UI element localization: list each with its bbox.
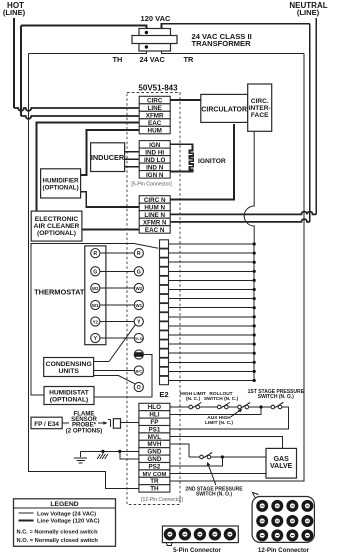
svg-text:CIRC N: CIRC N — [144, 197, 166, 204]
svg-text:IGN: IGN — [149, 142, 161, 149]
svg-text:5-Pin Connector: 5-Pin Connector — [173, 547, 221, 554]
svg-text:HUMIDIFIER: HUMIDIFIER — [43, 177, 80, 184]
svg-text:HUM N: HUM N — [144, 205, 165, 212]
svg-text:PS1: PS1 — [148, 426, 160, 433]
svg-text:XFMR N: XFMR N — [143, 220, 166, 227]
svg-text:N.C. = Normally closed switch: N.C. = Normally closed switch — [17, 530, 99, 536]
svg-text:MV COM: MV COM — [142, 472, 166, 478]
svg-text:[12-Pin Connector]: [12-Pin Connector] — [141, 497, 183, 503]
svg-text:24 VAC: 24 VAC — [140, 55, 166, 64]
svg-text:FP / E34: FP / E34 — [34, 421, 59, 428]
svg-text:YLO: YLO — [135, 337, 143, 341]
svg-text:GND: GND — [147, 456, 161, 463]
svg-text:Low Voltage (24 VAC): Low Voltage (24 VAC) — [37, 511, 96, 517]
svg-text:EAC: EAC — [148, 120, 162, 127]
svg-text:(LINE): (LINE) — [297, 8, 320, 17]
svg-text:120 VAC: 120 VAC — [141, 14, 171, 23]
svg-text:(2 OPTIONS): (2 OPTIONS) — [66, 428, 103, 435]
svg-text:50V51-843: 50V51-843 — [138, 84, 178, 93]
svg-text:O: O — [137, 385, 141, 391]
svg-text:TH: TH — [150, 486, 159, 493]
svg-text:(OPTIONAL): (OPTIONAL) — [43, 184, 79, 191]
svg-text:G: G — [93, 269, 97, 275]
svg-text:TR: TR — [150, 478, 159, 485]
svg-text:E2: E2 — [159, 390, 168, 399]
svg-text:W2: W2 — [136, 286, 143, 291]
svg-text:HLI: HLI — [149, 412, 159, 419]
svg-text:Y2: Y2 — [93, 320, 99, 325]
svg-text:LIMIT (N. C.): LIMIT (N. C.) — [205, 420, 233, 426]
svg-text:W1: W1 — [92, 303, 99, 308]
svg-text:INTER-: INTER- — [249, 105, 271, 112]
svg-text:LEGEND: LEGEND — [50, 501, 78, 508]
svg-text:FP: FP — [150, 419, 158, 426]
svg-text:W1: W1 — [136, 303, 143, 308]
svg-text:HLO: HLO — [148, 404, 161, 411]
svg-text:G: G — [137, 269, 141, 275]
svg-text:[5-Pin Connector]: [5-Pin Connector] — [131, 182, 172, 188]
svg-text:(LINE): (LINE) — [3, 8, 26, 17]
svg-text:R: R — [93, 251, 97, 257]
svg-text:CIRCULATOR: CIRCULATOR — [201, 107, 247, 114]
svg-text:IND N: IND N — [146, 164, 164, 171]
svg-text:UNITS: UNITS — [58, 368, 79, 375]
svg-text:Line Voltage (120 VAC): Line Voltage (120 VAC) — [37, 519, 100, 525]
svg-text:TH: TH — [113, 55, 123, 64]
svg-text:AIR CLEANER: AIR CLEANER — [34, 223, 80, 230]
svg-text:GND: GND — [147, 449, 161, 456]
svg-text:CONDENSING: CONDENSING — [46, 361, 92, 368]
svg-text:GAS: GAS — [274, 456, 290, 463]
svg-text:TR: TR — [184, 55, 195, 64]
svg-text:B/C: B/C — [136, 370, 143, 374]
svg-text:THERMOSTAT: THERMOSTAT — [34, 287, 85, 296]
svg-text:EAC N: EAC N — [145, 227, 165, 234]
svg-text:CIRC: CIRC — [147, 98, 163, 105]
svg-text:MVL: MVL — [148, 434, 161, 441]
svg-text:W2: W2 — [92, 286, 99, 291]
svg-text:SWITCH (N. O.): SWITCH (N. O.) — [258, 394, 294, 400]
svg-text:SWITCH (N. C.): SWITCH (N. C.) — [204, 396, 239, 402]
svg-text:LINE N: LINE N — [144, 212, 165, 219]
svg-text:IGN N: IGN N — [146, 172, 164, 179]
svg-text:VALVE: VALVE — [270, 463, 293, 470]
svg-text:IGNITOR: IGNITOR — [198, 158, 226, 165]
svg-text:FACE: FACE — [251, 112, 269, 119]
svg-text:MVH: MVH — [147, 441, 161, 448]
svg-text:HUM: HUM — [148, 128, 162, 135]
svg-text:(N. C.): (N. C.) — [186, 396, 201, 402]
svg-text:ELECTRONIC: ELECTRONIC — [35, 216, 79, 223]
svg-text:PS2: PS2 — [148, 463, 160, 470]
svg-text:12-Pin Connector: 12-Pin Connector — [258, 547, 310, 554]
svg-text:INDUCER: INDUCER — [91, 153, 125, 162]
svg-text:Y: Y — [137, 320, 141, 326]
svg-text:TRANSFORMER: TRANSFORMER — [192, 39, 252, 48]
svg-text:Y: Y — [94, 336, 98, 342]
svg-text:HUM: HUM — [135, 353, 143, 357]
svg-text:LINE: LINE — [148, 105, 162, 112]
svg-text:(OPTIONAL): (OPTIONAL) — [37, 230, 76, 237]
svg-text:CIRC.: CIRC. — [251, 98, 269, 105]
svg-text:HUMIDISTAT: HUMIDISTAT — [49, 389, 89, 396]
svg-text:R: R — [137, 251, 141, 257]
svg-text:IND LO: IND LO — [144, 157, 165, 164]
svg-text:N.O. = Normally closed switch: N.O. = Normally closed switch — [17, 538, 99, 544]
svg-text:SWITCH (N. O.): SWITCH (N. O.) — [196, 492, 232, 498]
svg-text:IND HI: IND HI — [145, 149, 164, 156]
svg-text:(OPTIONAL): (OPTIONAL) — [50, 397, 88, 404]
svg-text:XFMR: XFMR — [146, 113, 164, 120]
